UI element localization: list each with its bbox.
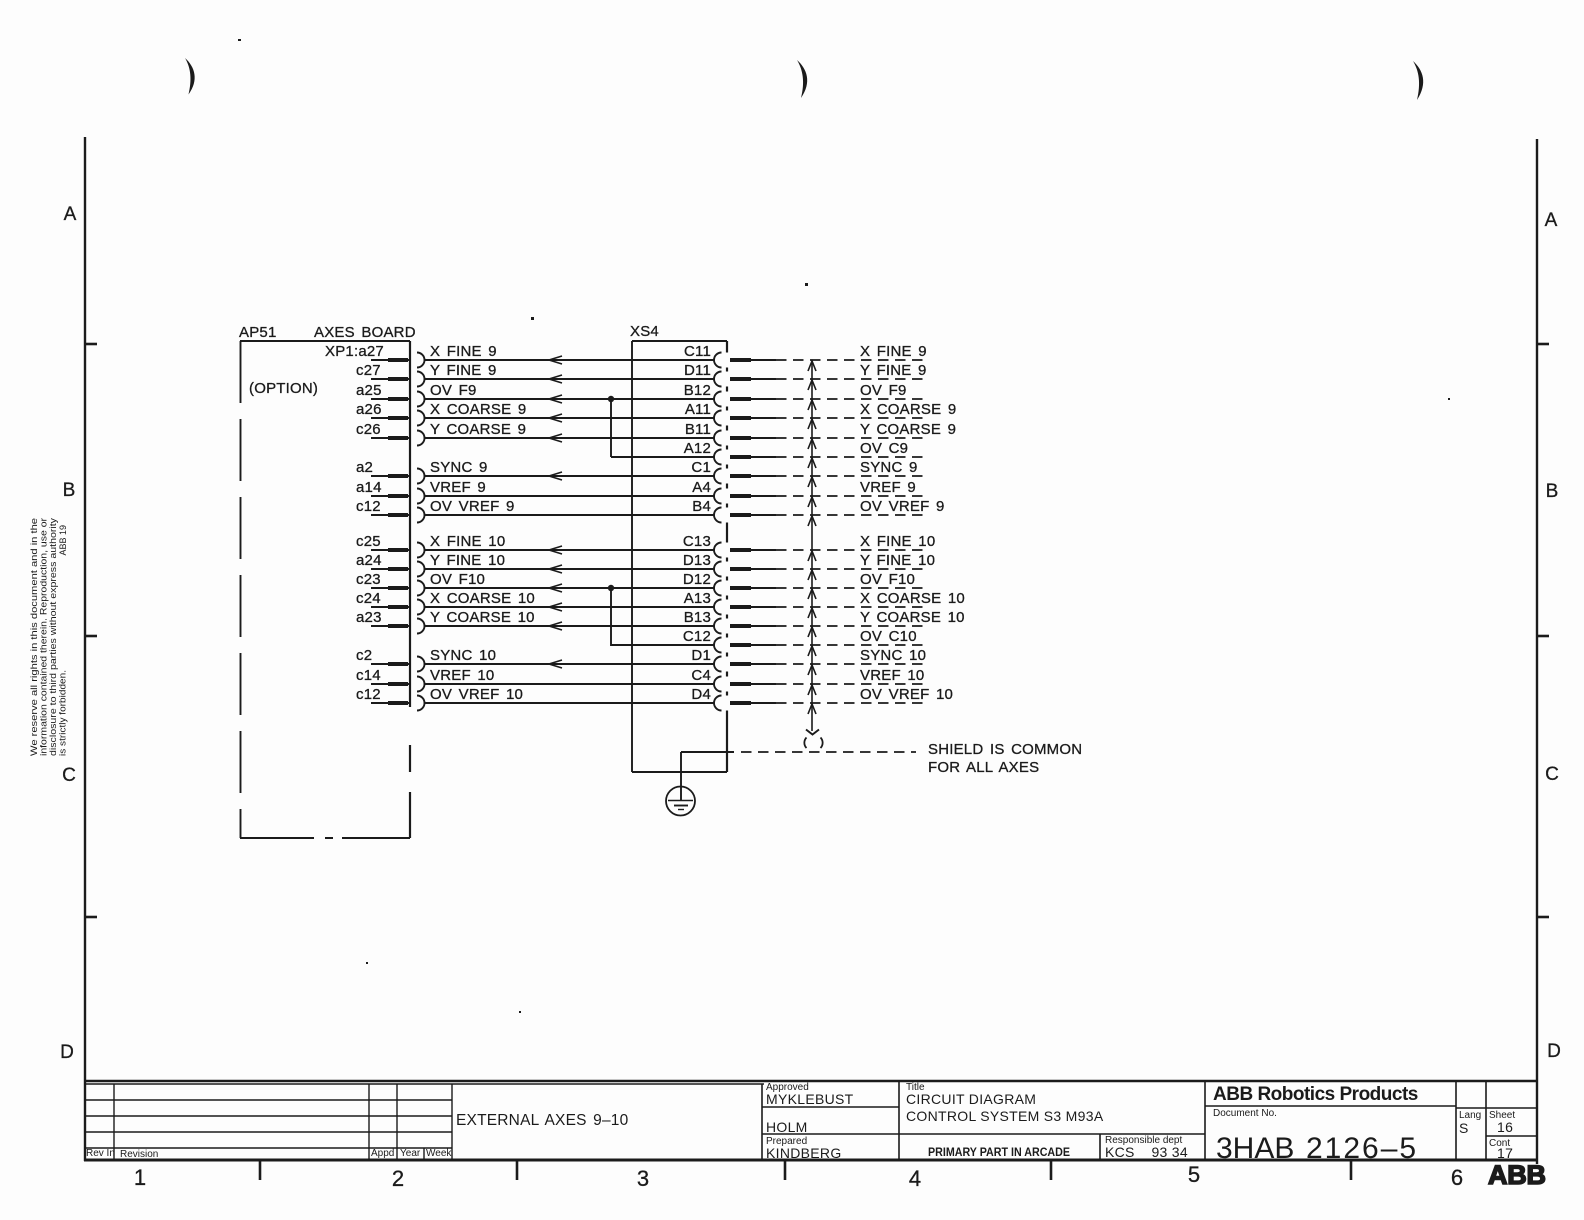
node XP1 pin c25	[356, 533, 425, 558]
svg-text:1: 1	[134, 1165, 146, 1190]
svg-text:C13: C13	[683, 533, 711, 550]
svg-text:B12: B12	[684, 382, 711, 399]
wire divider x=1205	[1204, 1081, 1206, 1160]
wire left frame border line	[84, 137, 86, 1161]
node XP1 pin a25	[356, 382, 425, 407]
node shield drain arrow at X FINE 9	[808, 361, 816, 371]
svg-text:a24: a24	[356, 552, 382, 569]
node XP1 pin c2	[356, 647, 425, 672]
svg-text:D: D	[60, 1042, 74, 1063]
node XP1 pin c12	[356, 686, 425, 711]
wire shielded cable dashed X FINE 9	[776, 343, 927, 360]
svg-text:VREF 9: VREF 9	[860, 479, 916, 496]
node junction dot on OV F9 wire	[608, 396, 614, 402]
svg-text:D1: D1	[691, 647, 711, 664]
wire shield drain vertical line	[811, 360, 813, 731]
node XS4 pin C12	[683, 628, 776, 653]
svg-text:SYNC 10: SYNC 10	[860, 647, 926, 664]
node Lang cell	[1459, 1110, 1481, 1136]
connector XS4 body box	[632, 341, 727, 772]
svg-text:A11: A11	[685, 401, 711, 418]
wire bottom frame tick x=260	[259, 1160, 262, 1180]
wire title block bottom line	[84, 1159, 1537, 1162]
svg-text:3: 3	[637, 1166, 649, 1191]
svg-text:2126–5: 2126–5	[1306, 1132, 1418, 1165]
svg-text:c12: c12	[356, 498, 381, 515]
svg-text:C: C	[1545, 764, 1559, 785]
node shield drain arrow at Y FINE 9	[808, 380, 816, 390]
wire shielded cable dashed OV C10	[776, 628, 924, 645]
wire shielded cable dashed OV F9	[776, 382, 924, 399]
node shield drain arrow at X FINE 10	[808, 551, 816, 561]
svg-text:X FINE 9: X FINE 9	[860, 343, 927, 360]
node Title cell	[906, 1082, 1104, 1124]
wire shield bus solid segment	[681, 751, 734, 753]
svg-text:A: A	[64, 204, 77, 225]
node shield drain arrow at OV C9	[808, 458, 816, 468]
node Responsible dept cell	[1100, 1134, 1188, 1160]
node XP1 pin a27	[325, 343, 425, 368]
wire shielded cable dashed X COARSE 9	[776, 401, 956, 418]
svg-text:CONTROL SYSTEM S3 M93A: CONTROL SYSTEM S3 M93A	[906, 1108, 1104, 1124]
wire signal Y COARSE 9 from XP1 to XS4	[425, 421, 715, 442]
wire shielded cable dashed SYNC 10	[776, 647, 926, 664]
svg-text:Y FINE 9: Y FINE 9	[860, 362, 927, 379]
svg-text:B: B	[1546, 481, 1559, 502]
svg-text:Document No.: Document No.	[1213, 1108, 1277, 1119]
node XS4 pin C4	[691, 667, 776, 692]
svg-text:Revision: Revision	[120, 1149, 158, 1160]
wire from jog to XS4 pin C12	[611, 644, 714, 646]
svg-text:OV C9: OV C9	[860, 440, 908, 457]
node XP1 pin a23	[356, 609, 425, 634]
wire signal OV F10 from XP1 to XS4	[425, 571, 715, 592]
svg-text:OV VREF 10: OV VREF 10	[430, 686, 523, 703]
node shield drain end arrowhead	[806, 730, 819, 735]
node XP1 pin a14	[356, 479, 425, 504]
svg-text:ABB 19: ABB 19	[58, 525, 68, 556]
wire signal X FINE 9 from XP1 to XS4	[425, 343, 715, 364]
node XS4 pin B13	[684, 609, 776, 634]
wire ground stem	[680, 752, 682, 800]
svg-text:C: C	[62, 765, 76, 786]
svg-text:XS4: XS4	[630, 323, 659, 340]
node XS4 pin D11	[684, 362, 776, 387]
node binder curve mark 3	[1413, 61, 1423, 100]
wire bottom frame tick x=785	[784, 1160, 787, 1180]
wire shield bus dashed segment	[741, 751, 916, 753]
svg-text:C12: C12	[683, 628, 711, 645]
svg-text:Appd: Appd	[371, 1148, 394, 1159]
svg-text:B13: B13	[684, 609, 711, 626]
node XS4 pin B12	[684, 382, 776, 407]
node XS4 pin C1	[691, 459, 776, 484]
svg-text:X COARSE 10: X COARSE 10	[430, 590, 535, 607]
node SHIELD IS COMMON note	[928, 741, 1082, 776]
svg-text:KCS 93 34: KCS 93 34	[1105, 1144, 1188, 1160]
svg-text:a2: a2	[356, 459, 373, 476]
node XS4 pin D1	[691, 647, 776, 672]
wire right frame tick y=636	[1537, 635, 1549, 638]
wire left frame tick y=636	[85, 635, 97, 638]
svg-text:Year: Year	[400, 1148, 421, 1159]
svg-text:(OPTION): (OPTION)	[249, 380, 318, 397]
wire shielded cable dashed Y FINE 9	[776, 362, 927, 379]
svg-text:Y COARSE 10: Y COARSE 10	[430, 609, 535, 626]
svg-text:VREF 9: VREF 9	[430, 479, 486, 496]
wire bottom frame tick x=517	[516, 1160, 519, 1180]
svg-text:OV F10: OV F10	[860, 571, 915, 588]
svg-text:A: A	[1545, 210, 1558, 231]
node XP1 pin a26	[356, 401, 425, 426]
svg-text:X COARSE 9: X COARSE 9	[430, 401, 526, 418]
wire shielded cable dashed VREF 9	[776, 479, 924, 496]
svg-text:B4: B4	[692, 498, 711, 515]
wire shielded cable dashed Y COARSE 10	[776, 609, 965, 626]
node Sheet cell	[1489, 1110, 1515, 1135]
wire shielded cable dashed OV VREF 9	[776, 498, 945, 515]
wire signal Y FINE 9 from XP1 to XS4	[425, 362, 715, 383]
wire signal Y FINE 10 from XP1 to XS4	[425, 552, 715, 573]
svg-text:D12: D12	[683, 571, 711, 588]
svg-text:D4: D4	[691, 686, 711, 703]
svg-text:disclosure to third parties wi: disclosure to third parties without expr…	[48, 517, 58, 756]
svg-text:A4: A4	[692, 479, 711, 496]
svg-text:Y FINE 10: Y FINE 10	[860, 552, 935, 569]
node shield drain arrow at Y COARSE 9	[808, 439, 816, 449]
svg-text:X COARSE 9: X COARSE 9	[860, 401, 956, 418]
node Document No. cell	[1213, 1108, 1418, 1165]
svg-text:information contained therein.: information contained therein. Reproduct…	[39, 518, 49, 756]
svg-text:We reserve all rights in this: We reserve all rights in this document a…	[29, 518, 39, 756]
svg-text:A13: A13	[684, 590, 711, 607]
svg-text:Week: Week	[426, 1148, 452, 1159]
node XP1 pin c27	[356, 362, 425, 387]
node shield drain arrow at OV VREF 9	[808, 516, 816, 526]
svg-text:4: 4	[909, 1166, 921, 1191]
node shield drain arrow at OV F10	[808, 589, 816, 599]
svg-text:SYNC 9: SYNC 9	[860, 459, 918, 476]
wire shielded cable dashed Y FINE 10	[776, 552, 935, 569]
wire divider under MYKLEBUST	[762, 1106, 899, 1108]
node shield drain arrow at Y FINE 10	[808, 570, 816, 580]
node shield drain arrow at SYNC 10	[808, 665, 816, 675]
svg-text:c14: c14	[356, 667, 381, 684]
svg-text:XP1:a27: XP1:a27	[325, 343, 384, 360]
node shield drain arrow at VREF 9	[808, 497, 816, 507]
svg-text:a25: a25	[356, 382, 382, 399]
wire jog down from OV F10 to row below	[610, 588, 612, 646]
node XS4 pin D13	[683, 552, 776, 577]
node XP1 pin c23	[356, 571, 425, 596]
svg-text:OV F10: OV F10	[430, 571, 485, 588]
svg-text:C11: C11	[684, 343, 711, 360]
svg-text:Rev In: Rev In	[86, 1148, 115, 1159]
node shield drain arrow at X COARSE 9	[808, 419, 816, 429]
svg-text:X FINE 9: X FINE 9	[430, 343, 497, 360]
svg-text:OV VREF 9: OV VREF 9	[860, 498, 945, 515]
wire left frame tick y=917	[85, 916, 97, 919]
node XS4 pin A11	[685, 401, 776, 426]
svg-text:X COARSE 10: X COARSE 10	[860, 590, 965, 607]
svg-text:2: 2	[392, 1166, 404, 1191]
svg-text:OV VREF 10: OV VREF 10	[860, 686, 953, 703]
node shield drain arrow at OV F9	[808, 400, 816, 410]
svg-text:a14: a14	[356, 479, 382, 496]
svg-text:OV C10: OV C10	[860, 628, 917, 645]
wire shielded cable dashed X COARSE 10	[776, 590, 965, 607]
node shield drain arrow at Y COARSE 10	[808, 627, 816, 637]
svg-text:S: S	[1459, 1120, 1469, 1136]
svg-text:B11: B11	[685, 421, 711, 438]
wire signal X COARSE 9 from XP1 to XS4	[425, 401, 715, 422]
wire signal X COARSE 10 from XP1 to XS4	[425, 590, 715, 611]
svg-text:OV VREF 9: OV VREF 9	[430, 498, 515, 515]
node Cont cell	[1489, 1138, 1513, 1161]
wire signal OV VREF 9 from XP1 to XS4	[425, 498, 715, 515]
wire shielded cable dashed OV VREF 10	[776, 686, 953, 703]
node junction dot on OV F10 wire	[608, 585, 614, 591]
wire divider under ABB Robotics Products	[1205, 1105, 1456, 1107]
svg-text:AXES BOARD: AXES BOARD	[314, 324, 416, 341]
node XS4 pin C11	[684, 343, 776, 368]
wire shielded cable dashed X FINE 10	[776, 533, 935, 550]
node XP1 pin c14	[356, 667, 425, 692]
node revision table	[84, 1084, 764, 1160]
node XS4 pin A13	[684, 590, 776, 615]
svg-text:c25: c25	[356, 533, 381, 550]
svg-text:C1: C1	[691, 459, 711, 476]
node shield connection symbol ( )	[804, 738, 822, 749]
node Approved cell	[766, 1082, 854, 1135]
svg-text:OV F9: OV F9	[860, 382, 907, 399]
wire left frame tick y=344	[85, 343, 97, 346]
ground protective earth symbol	[666, 787, 695, 816]
node XS4 pin B4	[692, 498, 776, 523]
node shield drain arrow at SYNC 9	[808, 477, 816, 487]
wire signal X FINE 10 from XP1 to XS4	[425, 533, 715, 554]
svg-text:Y FINE 9: Y FINE 9	[430, 362, 497, 379]
svg-text:16: 16	[1497, 1119, 1513, 1135]
node XP1 pin c12	[356, 498, 425, 523]
wire divider under HOLM	[762, 1133, 1205, 1135]
svg-text:D13: D13	[683, 552, 711, 569]
node XP1 pin a2	[356, 459, 424, 484]
svg-text:VREF 10: VREF 10	[430, 667, 494, 684]
svg-text:PRIMARY PART IN ARCADE: PRIMARY PART IN ARCADE	[928, 1147, 1070, 1159]
svg-text:c2: c2	[356, 647, 372, 664]
svg-text:5: 5	[1188, 1162, 1200, 1187]
svg-text:3HAB: 3HAB	[1216, 1132, 1294, 1165]
svg-text:ABB Robotics Products: ABB Robotics Products	[1213, 1084, 1418, 1105]
svg-text:B: B	[63, 480, 76, 501]
node XS4 pin A4	[692, 479, 776, 504]
svg-text:c24: c24	[356, 590, 381, 607]
node XP1 pin c24	[356, 590, 425, 615]
svg-text:X FINE 10: X FINE 10	[430, 533, 505, 550]
svg-text:ABB: ABB	[1488, 1160, 1546, 1190]
wire lang sheet top line	[1456, 1107, 1537, 1109]
svg-text:c26: c26	[356, 421, 381, 438]
node XS4 pin D4	[691, 686, 776, 711]
node binder curve mark 2	[797, 60, 807, 98]
svg-text:D: D	[1547, 1041, 1561, 1062]
node XS4 pin A12	[684, 440, 776, 465]
svg-text:c27: c27	[356, 362, 381, 379]
wire signal SYNC 10 from XP1 to XS4	[425, 647, 715, 668]
svg-text:SYNC 9: SYNC 9	[430, 459, 488, 476]
node Prepared cell	[766, 1136, 842, 1161]
svg-text:A12: A12	[684, 440, 711, 457]
node XS4 pin D12	[683, 571, 776, 596]
wire title block divider x=762	[761, 1084, 763, 1160]
svg-text:D11: D11	[684, 362, 711, 379]
wire shielded cable dashed OV F10	[776, 571, 924, 588]
svg-text:Y COARSE 9: Y COARSE 9	[860, 421, 956, 438]
wire signal VREF 9 from XP1 to XS4	[425, 479, 715, 496]
svg-text:HOLM: HOLM	[766, 1119, 808, 1135]
node shield drain arrow at X COARSE 10	[808, 608, 816, 618]
wire shielded cable dashed OV C9	[776, 440, 924, 457]
svg-text:SYNC 10: SYNC 10	[430, 647, 496, 664]
wire jog down from OV F9 to row below	[610, 399, 612, 457]
svg-text:EXTERNAL AXES 9–10: EXTERNAL AXES 9–10	[456, 1112, 629, 1129]
node XS4 pin B11	[685, 421, 776, 446]
wire signal OV F9 from XP1 to XS4	[425, 382, 715, 403]
node shield drain arrow at OV VREF 10	[808, 704, 816, 714]
node scan specks	[238, 39, 1450, 1013]
svg-text:Y COARSE 9: Y COARSE 9	[430, 421, 526, 438]
svg-text:MYKLEBUST: MYKLEBUST	[766, 1091, 854, 1107]
wire signal Y COARSE 10 from XP1 to XS4	[425, 609, 715, 630]
wire bottom frame tick x=1351	[1350, 1160, 1353, 1180]
wire from jog to XS4 pin A12	[611, 456, 714, 458]
node shield drain arrow at VREF 10	[808, 685, 816, 695]
wire title column divider x=899	[898, 1081, 900, 1160]
wire signal VREF 10 from XP1 to XS4	[425, 667, 715, 684]
connector XP1 body line	[409, 341, 411, 838]
wire right frame tick y=344	[1537, 343, 1549, 346]
svg-text:C4: C4	[691, 667, 711, 684]
svg-text:6: 6	[1451, 1165, 1463, 1190]
svg-text:OV F9: OV F9	[430, 382, 477, 399]
wire divider x=1456	[1455, 1081, 1457, 1160]
node legal notice rotated text	[29, 517, 68, 756]
svg-text:a26: a26	[356, 401, 382, 418]
svg-text:c12: c12	[356, 686, 381, 703]
svg-text:Y FINE 10: Y FINE 10	[430, 552, 505, 569]
component AP51 AXES BOARD (option) box	[240, 341, 410, 838]
node XS4 pin C13	[683, 533, 776, 558]
wire frame bottom line	[85, 1080, 1537, 1082]
svg-text:VREF 10: VREF 10	[860, 667, 924, 684]
wire right frame tick y=917	[1537, 916, 1549, 919]
node XP1 pin a24	[356, 552, 425, 577]
wire sheet cont divider	[1486, 1135, 1537, 1137]
wire right frame border line	[1536, 139, 1538, 1164]
node XP1 pin c26	[356, 421, 425, 446]
wire shielded cable dashed VREF 10	[776, 667, 924, 684]
svg-text:AP51: AP51	[239, 324, 277, 341]
wire signal OV VREF 10 from XP1 to XS4	[425, 686, 715, 703]
node binder curve mark 1	[185, 58, 195, 95]
svg-text:is strictly forbidden.: is strictly forbidden.	[58, 670, 68, 756]
wire signal SYNC 9 from XP1 to XS4	[425, 459, 715, 480]
svg-text:FOR ALL AXES: FOR ALL AXES	[928, 759, 1039, 776]
wire divider x=1486	[1485, 1081, 1487, 1160]
svg-text:17: 17	[1497, 1145, 1513, 1161]
svg-text:Y COARSE 10: Y COARSE 10	[860, 609, 965, 626]
wire shielded cable dashed SYNC 9	[776, 459, 924, 476]
svg-text:a23: a23	[356, 609, 382, 626]
svg-text:SHIELD IS COMMON: SHIELD IS COMMON	[928, 741, 1082, 758]
wire bottom frame tick x=1051	[1050, 1160, 1053, 1180]
svg-text:CIRCUIT DIAGRAM: CIRCUIT DIAGRAM	[906, 1091, 1036, 1107]
node shield drain arrow at OV C10	[808, 646, 816, 656]
wire shielded cable dashed Y COARSE 9	[776, 421, 956, 438]
svg-text:c23: c23	[356, 571, 381, 588]
svg-text:KINDBERG: KINDBERG	[766, 1145, 842, 1161]
svg-text:X FINE 10: X FINE 10	[860, 533, 935, 550]
